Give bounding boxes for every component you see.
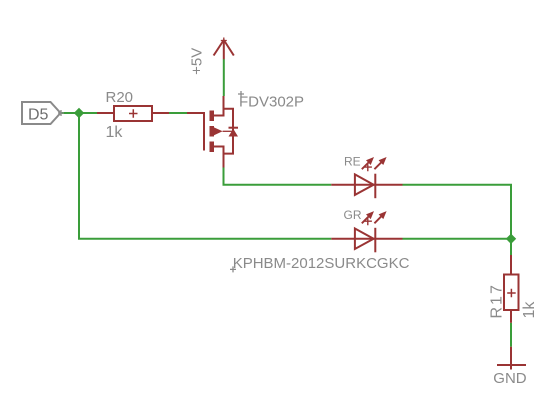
channel bars <box>210 111 215 122</box>
wire junction to R17 <box>510 239 512 255</box>
origin cross <box>365 164 372 171</box>
wire junction down left side <box>79 113 331 239</box>
emission arrow 1 <box>362 216 370 224</box>
origin cross <box>365 218 372 225</box>
label FDV302P <box>238 91 304 110</box>
wire R20 to gate <box>169 112 187 114</box>
transistor Q1 FDV302P (n-channel MOSFET) <box>187 96 238 168</box>
LED D-GR <box>331 211 402 252</box>
junction dot B (right) <box>506 234 516 244</box>
wire net D5 to junction <box>61 112 97 114</box>
resistor R20 <box>97 106 169 121</box>
bulk arrow <box>214 127 223 135</box>
wire GR LED to junction right <box>403 238 512 240</box>
wire RE LED to right rail <box>403 185 512 239</box>
ground GND <box>497 347 526 370</box>
LED D-RE <box>331 157 402 198</box>
connector tag D5 <box>22 102 64 124</box>
svg-text:D5: D5 <box>28 107 49 124</box>
wire +5V to drain <box>223 59 225 96</box>
svg-text:FDV302P: FDV302P <box>239 93 304 110</box>
svg-text:KPHBM-2012SURKCGKC: KPHBM-2012SURKCGKC <box>233 255 410 272</box>
emission arrow 1 <box>362 162 370 170</box>
svg-text:GND: GND <box>493 370 527 387</box>
svg-text:GR: GR <box>344 208 362 222</box>
svg-text:+5V: +5V <box>189 48 206 75</box>
svg-text:R20: R20 <box>106 89 134 106</box>
resistor R17 <box>504 255 519 323</box>
emission arrow 2 <box>374 216 382 224</box>
svg-text:RE: RE <box>344 155 361 169</box>
source connection <box>214 147 224 168</box>
drain connection <box>214 96 224 116</box>
svg-text:R17: R17 <box>489 283 506 318</box>
body rail <box>224 109 234 154</box>
svg-text:1k: 1k <box>521 301 538 319</box>
gate lead <box>187 113 204 151</box>
wire source to RE LED <box>224 168 332 185</box>
emission arrow 2 <box>374 162 382 170</box>
label KPHBM-2012SURKCGKC <box>230 255 410 272</box>
svg-text:1k: 1k <box>106 124 124 141</box>
power +5V symbol <box>214 38 234 60</box>
junction dot A (left) <box>74 108 84 118</box>
body diode <box>229 127 239 129</box>
wire R17 to GND <box>510 323 512 347</box>
